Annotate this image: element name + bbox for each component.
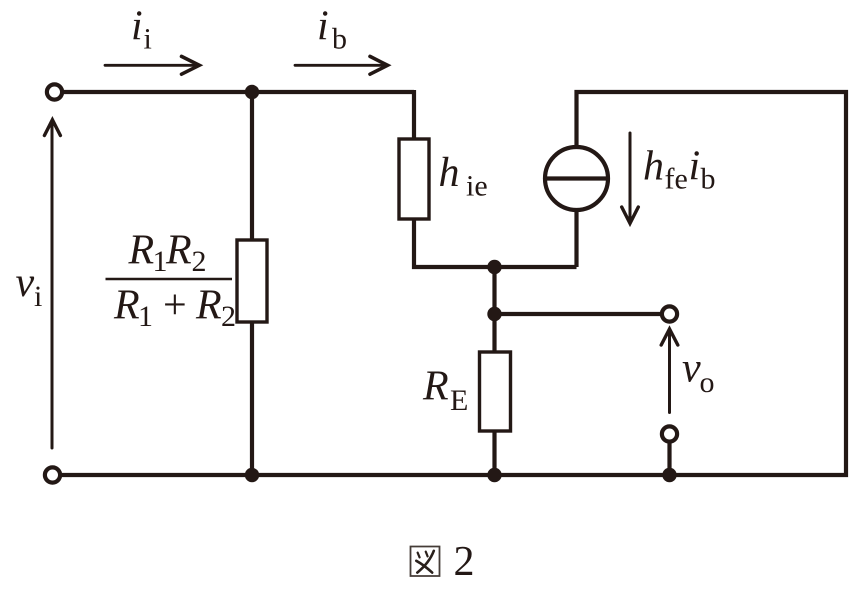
node at base junction <box>245 85 259 99</box>
svg-text:1: 1 <box>138 300 153 333</box>
svg-text:v: v <box>682 346 701 392</box>
svg-text:R: R <box>195 283 222 329</box>
arrow v_i head <box>44 120 60 136</box>
svg-text:i: i <box>34 280 42 313</box>
svg-text:2: 2 <box>221 300 236 333</box>
caption figure glyph ZU (drawn) <box>411 547 440 577</box>
svg-text:fe: fe <box>665 163 688 196</box>
svg-text:2: 2 <box>454 539 475 585</box>
node ground rail output <box>662 468 676 482</box>
wire R1R2 branch bottom <box>250 322 254 475</box>
svg-text:ie: ie <box>466 170 488 203</box>
wire vo node to output terminal <box>495 312 662 316</box>
arrow v_o shaft <box>668 333 671 413</box>
svg-text:v: v <box>16 260 35 306</box>
wire RE bottom to ground rail <box>492 431 496 475</box>
arrow h_fe i_b shaft <box>629 133 632 220</box>
wire emitter node down to vo node <box>492 267 496 314</box>
terminal output bottom <box>662 426 677 441</box>
current source U1 bar <box>545 176 608 180</box>
arrow i_b shaft <box>295 64 384 67</box>
svg-text:i: i <box>131 4 143 50</box>
resistor R_E body <box>480 352 511 431</box>
arrow i_b head <box>370 56 388 74</box>
fraction bar <box>106 278 233 281</box>
terminal input bottom <box>45 467 60 482</box>
svg-text:R: R <box>422 364 449 410</box>
wire h_ie bottom to emitter node <box>414 219 577 267</box>
wire R1R2 branch top <box>250 92 254 240</box>
svg-text:o: o <box>700 366 715 399</box>
svg-text:E: E <box>450 384 468 417</box>
svg-text:h: h <box>439 150 460 196</box>
svg-text:h: h <box>643 144 664 190</box>
arrow i_i head <box>182 56 200 74</box>
svg-text:2: 2 <box>192 245 207 278</box>
arrow h_fe i_b head <box>622 207 639 223</box>
svg-text:i: i <box>317 4 329 50</box>
wire top-left horizontal from input terminal to h_ie corner <box>61 90 414 94</box>
svg-text:R: R <box>128 228 155 274</box>
wire current source top / top-right loop / right side / bottom rail <box>60 92 846 475</box>
wire vo node down to RE resistor <box>492 314 496 352</box>
node at vo branch junction <box>487 307 501 321</box>
resistor h_ie body <box>399 139 429 219</box>
svg-text:i: i <box>689 144 701 190</box>
wire h_ie top drop <box>412 90 416 139</box>
terminal input top <box>47 84 62 99</box>
node ground rail R1R2 <box>245 468 259 482</box>
wire current source bottom <box>574 205 578 267</box>
resistor R1R2/(R1+R2) body <box>237 240 267 322</box>
svg-text:b: b <box>701 163 716 196</box>
node at emitter junction <box>487 260 501 274</box>
svg-text:R: R <box>165 228 192 274</box>
svg-text:R: R <box>113 283 140 329</box>
current source U1 circle <box>545 147 608 210</box>
svg-text:b: b <box>332 23 347 56</box>
terminal output top <box>662 306 677 321</box>
wire output lower terminal to ground rail <box>667 442 671 475</box>
svg-text:i: i <box>144 23 152 56</box>
arrow v_i shaft <box>51 123 54 449</box>
arrow i_i shaft <box>105 64 196 67</box>
arrow v_o head <box>661 329 678 345</box>
svg-text:+: + <box>163 283 187 329</box>
node ground rail RE <box>487 468 501 482</box>
